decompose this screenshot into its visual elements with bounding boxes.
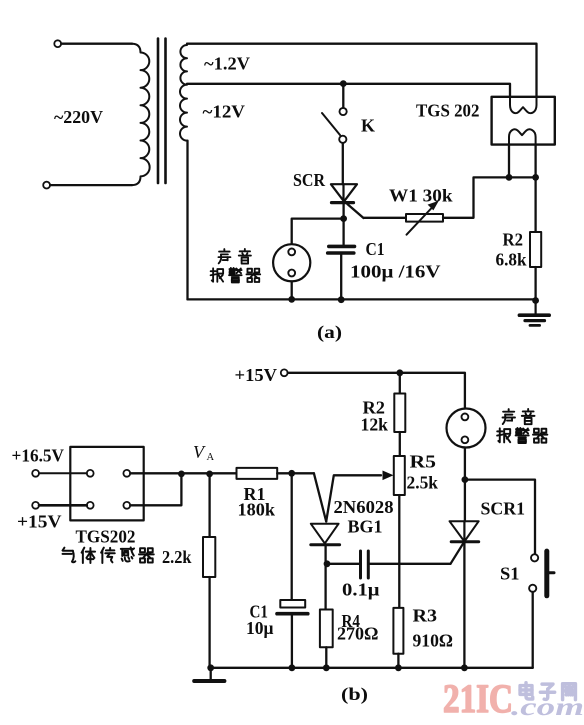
wire W1 right up to TGS	[443, 177, 536, 217]
switch S1	[531, 554, 538, 561]
node BG1/cap	[324, 560, 331, 567]
terminal top-left	[54, 40, 61, 47]
wire node to alarm	[292, 219, 344, 245]
wire R2a down	[534, 177, 536, 232]
wire sensor top-right to VA	[130, 472, 236, 474]
wire VA down to 2.2k	[208, 474, 210, 537]
svg-text:SCR: SCR	[293, 170, 326, 190]
wire secondary top to right	[187, 44, 537, 97]
ground (a)	[534, 301, 536, 315]
wire R5 down to R3	[398, 495, 400, 608]
TGS202 sensor box (b)	[70, 447, 143, 521]
SCR1 gate	[451, 542, 465, 564]
resistor R4 body	[320, 610, 333, 648]
svg-text:TGS 202: TGS 202	[416, 101, 480, 121]
node	[178, 471, 185, 478]
svg-text:21IC: 21IC	[443, 676, 513, 721]
SCR1 thyristor	[450, 521, 479, 541]
capacitor C1 (a)	[342, 219, 344, 245]
terminal +15V	[281, 369, 288, 376]
potentiometer W1 arrow	[407, 207, 434, 235]
wire R2b top	[399, 373, 401, 394]
svg-text:TGS202: TGS202	[76, 527, 136, 547]
wire TGS legs down	[509, 145, 536, 178]
terminal +15V (b)	[32, 502, 39, 509]
wire R2b to R5	[399, 432, 401, 456]
watermark 21IC.com dian-zi-wang	[443, 676, 584, 721]
BG1 anode V	[314, 473, 326, 521]
node VA	[206, 471, 213, 478]
wire gate to W1	[364, 217, 406, 219]
svg-text:+15V: +15V	[235, 365, 278, 385]
node TGS left leg	[506, 174, 513, 181]
node	[289, 664, 296, 671]
wire S1 down to rail	[532, 592, 534, 668]
TGS 202 sensor box	[492, 97, 555, 145]
svg-text:12k: 12k	[361, 415, 389, 435]
node	[207, 664, 214, 671]
wire secondary bottom down left side	[186, 141, 188, 300]
label alarm (a) bao-jing-qi	[211, 268, 224, 282]
transformer secondary lower winding (~12V)	[180, 85, 187, 141]
wire primary top	[61, 43, 132, 45]
svg-text:270Ω: 270Ω	[337, 624, 379, 644]
label gas sensor qi-ti-chuan-gan-qi	[63, 548, 76, 563]
svg-text:BG1: BG1	[348, 517, 383, 537]
wire R1 to BG1 node	[277, 472, 314, 474]
resistor R1 body	[237, 468, 278, 479]
wire R2 to ground	[534, 267, 536, 301]
svg-text:R2: R2	[503, 230, 524, 250]
TGS lower heater element	[509, 129, 536, 144]
wire	[39, 504, 87, 507]
svg-text:R5: R5	[410, 452, 437, 472]
node	[395, 664, 402, 671]
resistor R2 (b) body	[394, 394, 405, 433]
wire	[39, 472, 87, 474]
sensor pins	[87, 470, 94, 477]
svg-text:+15V: +15V	[17, 512, 62, 532]
transformer secondary upper winding (~1.2V)	[180, 44, 187, 85]
TGS upper heater element	[510, 97, 537, 113]
wire 2.2k to gnd	[208, 577, 210, 668]
resistor R2 (a) body	[530, 232, 541, 267]
svg-text:~220V: ~220V	[54, 107, 103, 127]
label alarm (a) sheng-yin	[218, 249, 230, 263]
svg-text:SCR1: SCR1	[481, 499, 526, 519]
svg-text:.com: .com	[511, 694, 584, 721]
resistor R3 body	[393, 608, 403, 654]
wire R3 to rail	[397, 654, 399, 668]
label alarm (b) sheng-yin	[503, 409, 515, 424]
BG1 gate line to R5 wiper w/ arrow	[326, 475, 381, 521]
wire C1b top	[291, 473, 293, 600]
wire BG1 cathode down	[324, 545, 326, 610]
label alarm (b) bao-jing-qi	[497, 428, 510, 442]
potentiometer W1 30k body	[406, 214, 443, 222]
svg-text:V: V	[193, 442, 206, 462]
capacitor C1 (b) electrolytic	[280, 600, 305, 608]
svg-text:~12V: ~12V	[203, 102, 246, 122]
node alarm-b bottom	[462, 476, 469, 483]
CJK labels drawn as strokes	[63, 249, 548, 563]
svg-text:W1 30k: W1 30k	[389, 186, 453, 206]
potentiometer R5 body	[394, 456, 405, 495]
svg-text:2.5k: 2.5k	[407, 473, 439, 493]
node tap/K junction	[340, 80, 347, 87]
node R2b top	[396, 369, 403, 376]
alarm buzzer (a)	[273, 244, 310, 281]
svg-text:R3: R3	[413, 606, 438, 626]
resistor 2.2k body	[203, 537, 215, 577]
node R2 bottom	[532, 297, 539, 304]
transistor BG1 2N6028	[311, 524, 339, 544]
alarm buzzer (b)	[447, 409, 486, 448]
node SCR1 bottom	[461, 664, 468, 671]
SCR thyristor	[331, 184, 357, 201]
svg-text:K: K	[361, 116, 375, 136]
node alarm bottom	[288, 296, 295, 303]
wire +15V rail	[288, 373, 465, 409]
node	[323, 664, 330, 671]
wire SCR cathode to C1 node	[342, 203, 344, 219]
wire primary bottom	[43, 182, 50, 189]
svg-text:(a): (a)	[317, 322, 342, 343]
svg-text:10μ: 10μ	[246, 618, 274, 638]
wire R4 to rail	[325, 647, 327, 668]
wire bottom rail (a)	[188, 299, 536, 300]
node C1 bottom	[338, 296, 345, 303]
capacitor 0.1u	[359, 551, 362, 578]
wire K upper	[342, 84, 344, 108]
svg-text:C1: C1	[366, 239, 385, 259]
svg-text:0.1μ: 0.1μ	[342, 580, 380, 600]
node BG1/C1b	[288, 470, 295, 477]
terminal +16.5V	[32, 470, 39, 477]
svg-text:2N6028: 2N6028	[334, 497, 394, 517]
switch K	[340, 108, 347, 115]
svg-text:+16.5V: +16.5V	[12, 446, 65, 466]
wire to S1	[465, 480, 535, 554]
node TGS right leg	[532, 174, 539, 181]
ground (b)	[210, 668, 212, 680]
transformer T1 primary winding	[132, 44, 150, 185]
wire	[50, 184, 132, 186]
wire secondary tap	[187, 84, 510, 97]
svg-text:6.8k: 6.8k	[496, 250, 527, 270]
svg-text:A: A	[207, 452, 215, 463]
wire cap to SCR1 gate	[368, 563, 450, 565]
wire SCR1 cathode down	[463, 542, 465, 668]
wire K to SCR	[342, 143, 344, 184]
bottom rail (b)	[211, 667, 533, 669]
SCR gate	[347, 204, 363, 218]
svg-text:~1.2V: ~1.2V	[204, 54, 250, 74]
wire alarm to SCR1	[464, 480, 466, 522]
svg-text:2.2k: 2.2k	[162, 547, 192, 567]
svg-text:S1: S1	[500, 564, 520, 584]
svg-text:910Ω: 910Ω	[413, 631, 454, 651]
node SCR/C1	[340, 215, 347, 222]
wire alarm-b down	[464, 448, 466, 481]
svg-text:(b): (b)	[341, 684, 368, 705]
wire alarm to bottom	[291, 281, 293, 299]
wire node to cap	[327, 563, 359, 565]
wire sensor bottom-right up	[130, 473, 181, 505]
svg-text:180k: 180k	[238, 500, 276, 520]
transformer core	[158, 39, 166, 184]
svg-text:100μ /16V: 100μ /16V	[350, 262, 441, 282]
